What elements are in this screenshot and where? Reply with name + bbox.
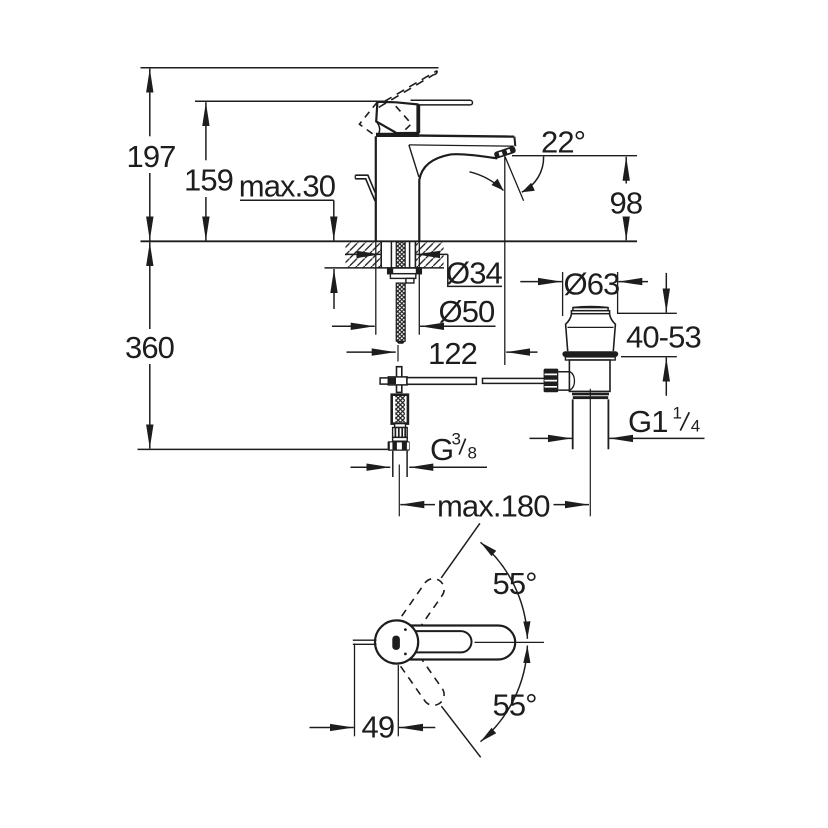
waste cap <box>573 306 608 309</box>
lever (dashed, raised position) <box>379 71 437 108</box>
dimension max.180 <box>400 504 435 506</box>
svg-text:197: 197 <box>127 139 176 174</box>
dimension 40-53 <box>665 273 667 313</box>
aerator (spout outlet) <box>493 146 516 160</box>
wire: lever neck <box>417 105 420 133</box>
mounting washer <box>388 268 422 274</box>
dimension O34 <box>345 253 381 255</box>
clamp screw <box>380 378 388 384</box>
node: faucet centreline below <box>398 465 400 517</box>
threaded shank (below nut) <box>396 283 405 341</box>
dimension max.30 lower arrow (below counter) <box>333 269 335 309</box>
svg-text:max.180: max.180 <box>437 489 550 524</box>
wire: side port weld curve <box>570 372 575 390</box>
waste thread grooves <box>572 393 609 396</box>
waste O-ring seal <box>562 351 618 357</box>
waste flare neck <box>566 314 572 352</box>
wire: O63 extension lines <box>563 272 618 316</box>
pop-up rod clamp <box>388 377 407 385</box>
wire: spout inner diagonal <box>409 145 419 177</box>
wire: 22 deg angle arc <box>522 157 544 193</box>
node: plan centreline <box>475 641 545 643</box>
wire: waste tail pipe <box>573 399 609 449</box>
counter hatching left <box>346 242 382 267</box>
node: cartridge slot <box>392 636 400 650</box>
wire: O50 extension lines (body edges continued) <box>376 241 420 334</box>
waste valve body <box>569 360 610 391</box>
handle boss circle <box>375 620 418 663</box>
svg-text:max.30: max.30 <box>239 168 336 203</box>
svg-text:360: 360 <box>125 330 175 365</box>
wire: 40-53 reference lines <box>617 313 677 356</box>
wire: faucet body right edge + spout underside <box>419 154 497 241</box>
lever dashed (rotated up 55) <box>388 574 448 648</box>
hose collar <box>395 424 406 428</box>
svg-text:G: G <box>430 432 453 467</box>
node: handle joint black band <box>376 133 419 137</box>
handle base body <box>376 102 417 133</box>
wire: handle base inner curve <box>376 121 379 133</box>
wire: counter top line <box>141 240 638 242</box>
svg-text:55°: 55° <box>493 688 537 723</box>
hose ribbed section <box>393 428 408 438</box>
lever outline (plan, outer) <box>390 626 515 660</box>
svg-text:3: 3 <box>452 429 461 448</box>
wire: spout chamfer line <box>409 145 514 146</box>
wire: 159 reference line <box>195 100 388 102</box>
wire: 197 reference line (top) <box>141 67 439 69</box>
wire: dashed lever tip cap <box>434 71 437 75</box>
wire: mounting hole edges <box>381 241 415 268</box>
handle base dashed outline (raised) <box>359 102 377 135</box>
knurled knob <box>544 369 559 393</box>
dimension 49 <box>354 644 356 737</box>
wire: spout right corner edge <box>513 137 516 147</box>
node: shank tip taper <box>396 341 405 344</box>
node: waste centreline <box>589 389 591 517</box>
wire: waste barrel inner line <box>568 326 614 328</box>
svg-text:Ø34: Ø34 <box>446 256 503 291</box>
pop-up rod (plan) <box>353 640 377 644</box>
wire: connector tail pipe <box>393 451 407 477</box>
pop-up horizontal rod (left segment) <box>407 378 476 385</box>
node: boss dots <box>404 628 407 631</box>
wire: 22 deg slant line <box>505 157 523 201</box>
pop-up horizontal rod (right segment) <box>483 378 546 383</box>
mounting nut <box>390 274 415 279</box>
dimension O63 <box>520 281 562 283</box>
svg-text:40-53: 40-53 <box>626 320 701 355</box>
threaded shank (through counter) <box>396 241 405 268</box>
dimension 55 deg lower arc <box>481 646 528 742</box>
side port neck <box>558 372 570 390</box>
counter hatching right <box>416 242 444 267</box>
wire: counter underside line <box>325 267 445 269</box>
dimension O50 <box>332 325 375 327</box>
svg-text:49: 49 <box>362 710 395 745</box>
pop-up rod hook (rear of body) <box>355 175 375 192</box>
dimension 98 <box>512 155 637 157</box>
wire: water stream arrow arc <box>470 172 504 191</box>
wire: spout top edge <box>419 136 514 137</box>
waste seat ring <box>565 357 615 360</box>
dimension 159 <box>205 102 207 160</box>
dimension 122 <box>347 351 396 353</box>
svg-text:159: 159 <box>184 163 233 198</box>
svg-text:22°: 22° <box>541 124 585 159</box>
dimension 197 <box>149 69 151 137</box>
svg-text:98: 98 <box>610 186 643 221</box>
svg-text:Ø50: Ø50 <box>439 294 496 329</box>
wire: 360 bottom reference line <box>138 448 388 450</box>
svg-text:4: 4 <box>691 416 700 435</box>
dimension 360 <box>149 242 151 329</box>
lever dashed (rotated down 55) <box>388 636 448 710</box>
hose band <box>393 437 408 441</box>
wire: 55 deg upper boundary line <box>441 523 480 578</box>
node: shank centreline <box>397 345 399 362</box>
pop-up vertical rod <box>397 367 402 393</box>
dimension 55 deg upper arc <box>481 542 528 639</box>
svg-text:8: 8 <box>468 443 477 462</box>
svg-text:Ø63: Ø63 <box>564 267 620 302</box>
flexible hose (braided) <box>392 395 408 424</box>
svg-text:122: 122 <box>428 336 477 371</box>
wire: shank tube walls <box>391 241 409 268</box>
wire: faucet body left edge <box>375 136 377 241</box>
svg-text:55°: 55° <box>493 566 537 601</box>
wire: 55 deg lower boundary line <box>441 706 480 757</box>
dimension G 3/8 <box>351 466 391 468</box>
lever (solid, horizontal) <box>411 100 473 105</box>
G3/8 connector nut <box>388 441 410 451</box>
lever outline (plan, inner) <box>395 631 472 652</box>
svg-text:1: 1 <box>673 403 682 422</box>
svg-text:G1: G1 <box>628 404 668 439</box>
dimension G1 1/4 <box>530 437 573 439</box>
mounting nut step <box>406 278 414 283</box>
node: aerator vertical reference line <box>504 156 506 365</box>
